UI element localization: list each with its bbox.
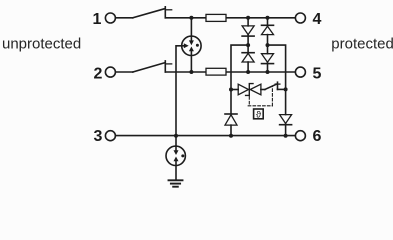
- svg-text:6: 6: [313, 128, 322, 145]
- svg-text:3: 3: [94, 128, 103, 145]
- svg-text:unprotected: unprotected: [2, 36, 81, 53]
- svg-text:protected: protected: [331, 36, 393, 53]
- svg-text:5: 5: [313, 66, 322, 83]
- svg-text:2: 2: [94, 66, 103, 83]
- svg-text:1: 1: [93, 11, 102, 28]
- svg-text:4: 4: [313, 11, 322, 28]
- svg-text:ϑ: ϑ: [256, 110, 262, 121]
